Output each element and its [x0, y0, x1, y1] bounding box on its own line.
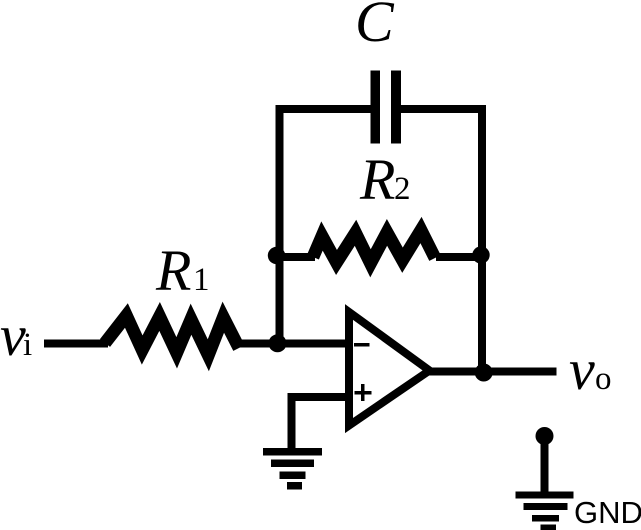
- wire R2 right stub: [436, 253, 482, 261]
- svg-text:v: v: [569, 337, 595, 402]
- svg-text:C: C: [355, 0, 395, 54]
- ground GND (bottom right): [516, 492, 574, 530]
- resistor R2: [313, 230, 435, 263]
- wire non-inverting input: [292, 397, 352, 449]
- svg-text:2: 2: [394, 171, 411, 207]
- wire op-amp output: [429, 368, 557, 376]
- op-amp plus sign: [355, 384, 372, 401]
- junction dot output node: [475, 364, 493, 382]
- op-amp U1 triangle: [349, 312, 430, 426]
- resistor R1: [105, 316, 239, 356]
- node A junction dot (R1 / inverting input): [269, 334, 287, 352]
- svg-text:R: R: [359, 147, 395, 212]
- svg-text:GND: GND: [574, 495, 641, 530]
- wire R2 left stub: [278, 253, 315, 261]
- op-amp minus sign: [354, 343, 370, 347]
- wire input vi to R1: [44, 340, 108, 348]
- wire top horizontal right (from capacitor): [397, 105, 486, 113]
- node dot GND terminal: [536, 427, 554, 445]
- svg-text:o: o: [595, 361, 612, 397]
- wire top horizontal left (to capacitor): [276, 105, 375, 113]
- ground (non-inverting input): [263, 448, 322, 490]
- wire right vertical (top loop down to output node): [478, 105, 486, 372]
- wire R1 to inverting input (through node A): [237, 340, 351, 348]
- wire GND stub bottom right: [541, 436, 549, 492]
- junction dot R2 left: [268, 247, 285, 264]
- svg-text:i: i: [23, 327, 32, 363]
- svg-text:R: R: [155, 238, 191, 303]
- junction dot R2 right: [472, 246, 489, 263]
- wire left vertical (node A up to top loop): [276, 105, 284, 348]
- svg-text:1: 1: [193, 262, 210, 298]
- capacitor C plates: [371, 71, 402, 144]
